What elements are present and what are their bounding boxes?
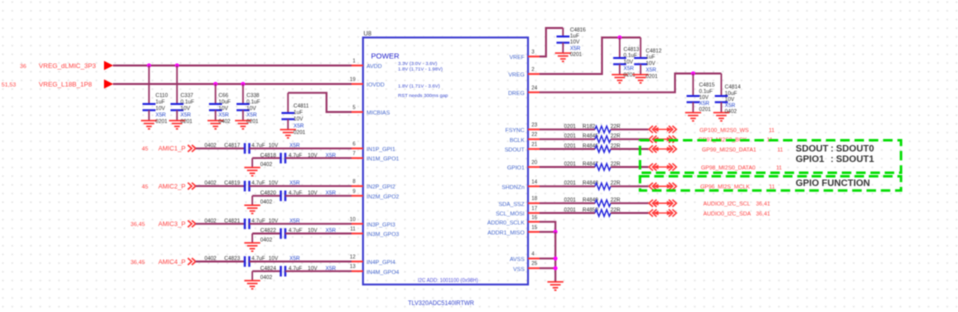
svg-text:C337: C337: [181, 93, 194, 99]
svg-text:AVSS: AVSS: [510, 257, 525, 263]
svg-text:C66: C66: [219, 93, 229, 99]
wire DREG net: [540, 74, 722, 93]
pin 16 ADDR0_SCLK: [487, 215, 539, 227]
node net label GP96_MI2S_MCLK: [700, 185, 775, 191]
svg-text:7: 7: [353, 151, 356, 157]
svg-text:C4812: C4812: [646, 48, 662, 54]
svg-text:0201: 0201: [564, 207, 576, 213]
svg-text:0402: 0402: [260, 200, 272, 206]
svg-text:RST needs 300ms gap: RST needs 300ms gap: [398, 93, 448, 99]
wire C4820 to pin 9: [285, 195, 351, 197]
svg-text:20: 20: [532, 160, 538, 166]
svg-text:10V: 10V: [247, 106, 257, 112]
svg-text:0201: 0201: [564, 134, 576, 140]
wire C4821 to pin 10: [249, 223, 351, 225]
pin 13 IN4M_GPO4: [350, 264, 399, 276]
svg-text:51,53: 51,53: [1, 82, 16, 88]
capacitor C338: [235, 84, 261, 129]
wire R4850 to offpage: [611, 212, 649, 214]
node net label GP99_MI2S0_DATA1: [702, 147, 783, 153]
svg-text:0402: 0402: [205, 181, 217, 187]
svg-text:C4822: C4822: [260, 228, 276, 234]
svg-text:U8: U8: [364, 31, 372, 38]
svg-text:AMIC3_P: AMIC3_P: [158, 221, 185, 228]
svg-text:10V: 10V: [624, 60, 634, 66]
wire ground to C4822: [252, 233, 280, 235]
svg-text:X5R: X5R: [219, 113, 230, 119]
svg-text:36: 36: [20, 64, 26, 70]
wire R4848 to offpage: [611, 185, 649, 187]
node net label GP98_MI2S0_DATA0: [701, 165, 782, 171]
svg-text:AMIC2_P: AMIC2_P: [158, 183, 185, 190]
svg-text:TLV320ADC5140IRTWR: TLV320ADC5140IRTWR: [408, 301, 475, 307]
svg-text:VREG_dLMIC_3P3: VREG_dLMIC_3P3: [39, 63, 97, 70]
svg-text:15: 15: [532, 225, 538, 231]
wire pin to R4845: [540, 138, 596, 140]
node offpage connector GP99_MI2S0_DATA1: [649, 145, 677, 152]
svg-text:10uF: 10uF: [725, 91, 738, 97]
svg-text:IN4P_GPI4: IN4P_GPI4: [367, 260, 396, 266]
resistor R4846 22R: [564, 143, 620, 152]
pin 20 GPIO1: [507, 160, 539, 172]
node AMIC1_P port: [142, 145, 196, 153]
svg-text:X5R: X5R: [156, 113, 167, 119]
svg-text:IN3M_GPO3: IN3M_GPO3: [367, 232, 400, 238]
node net label GP97_MI2S0_BCK: [698, 138, 772, 144]
svg-text:SDOUT0: SDOUT0: [836, 142, 874, 153]
svg-text:36,45: 36,45: [130, 222, 145, 228]
svg-text:VREG_L18B_1P8: VREG_L18B_1P8: [39, 81, 92, 88]
wire pin to R4846: [540, 148, 596, 150]
pin 9 IN2M_GPO2: [352, 189, 400, 201]
capacitor C4815: [685, 74, 715, 121]
capacitor C110: [141, 66, 168, 129]
svg-text:IN1M_GPO1: IN1M_GPO1: [367, 157, 400, 163]
svg-text:1uF: 1uF: [646, 55, 656, 61]
pin 2 VREG: [508, 67, 539, 79]
svg-text:23: 23: [532, 122, 538, 128]
wire R182 to offpage: [611, 128, 649, 130]
svg-text:X5R: X5R: [699, 101, 710, 107]
svg-text:1: 1: [353, 59, 356, 65]
svg-text:C110: C110: [156, 93, 168, 99]
svg-text:C4824: C4824: [260, 266, 276, 272]
svg-text:13: 13: [350, 264, 356, 270]
svg-text:11: 11: [776, 165, 782, 171]
svg-text:10: 10: [350, 217, 356, 223]
svg-text:SDOUT: SDOUT: [505, 148, 525, 154]
svg-text:VSS: VSS: [513, 267, 525, 273]
capacitor C4823: [205, 256, 301, 267]
svg-text:IN2P_GPI2: IN2P_GPI2: [367, 185, 396, 191]
wire IOVDD net: [113, 83, 352, 85]
wire R4847 to offpage: [611, 166, 649, 168]
svg-text:12: 12: [350, 255, 356, 261]
pin 12 IN4P_GPI4: [350, 255, 396, 267]
pin 21 SDOUT: [505, 142, 540, 154]
svg-text:5: 5: [353, 105, 356, 111]
pin 23 FSYNC: [505, 122, 539, 134]
svg-text:10V: 10V: [294, 117, 304, 123]
svg-text:FSYNC: FSYNC: [505, 128, 524, 134]
svg-text:ADDR0_SCLK: ADDR0_SCLK: [487, 220, 525, 226]
svg-text:22: 22: [532, 132, 538, 138]
node offpage connector GP100_MI2S0_WS: [649, 126, 677, 133]
pin 14 SHDNZn: [502, 179, 540, 191]
value TLV320ADC5140IRTWR: [408, 301, 475, 307]
wire pin to R4847: [540, 166, 596, 168]
svg-text:SCL_MOSI: SCL_MOSI: [496, 212, 525, 218]
pin 17 SCL_MOSI: [496, 206, 540, 218]
svg-text:X5R: X5R: [624, 66, 635, 72]
node AMIC2_P port: [142, 183, 196, 191]
node offpage connector AUDIO0_I2C_SCL: [649, 200, 677, 207]
svg-text:4: 4: [532, 252, 535, 258]
svg-text:C4823: C4823: [224, 256, 240, 262]
pin 24 DREG: [508, 85, 539, 97]
svg-text:0201: 0201: [156, 119, 168, 125]
capacitor C4814: [713, 74, 740, 121]
node offpage connector AUDIO0_I2C_SDA: [649, 209, 677, 216]
pin 8 IN2P_GPI2: [352, 179, 396, 191]
svg-text:VREG: VREG: [508, 73, 524, 79]
capacitor C337: [169, 66, 195, 129]
pin 3 VREF: [509, 50, 539, 62]
pin 7 IN1M_GPO1: [352, 151, 400, 163]
svg-text:X5R: X5R: [247, 113, 258, 119]
svg-text:0201: 0201: [564, 161, 576, 167]
svg-text:C4811: C4811: [294, 104, 309, 110]
wire VSS to node: [540, 267, 556, 269]
node AMIC4_P port: [130, 258, 195, 266]
svg-text:10V: 10V: [181, 106, 191, 112]
resistor R182 22R: [564, 124, 620, 133]
svg-text:0402: 0402: [260, 237, 272, 243]
svg-text::: :: [831, 142, 834, 153]
junction C4815 on DREG: [691, 71, 695, 75]
svg-text:0201: 0201: [646, 74, 658, 80]
svg-text:0.1uF: 0.1uF: [699, 89, 713, 95]
svg-text:10V: 10V: [219, 106, 229, 112]
svg-text:10V: 10V: [646, 61, 656, 67]
resistor R4850 22R: [564, 207, 620, 216]
svg-text:36,41: 36,41: [756, 202, 770, 208]
svg-text:18: 18: [532, 196, 538, 202]
svg-text:9: 9: [353, 189, 356, 195]
svg-text:DREG: DREG: [508, 91, 524, 97]
svg-text:X5R: X5R: [181, 113, 192, 119]
node highlight box GPIO FUNCTION: [640, 176, 901, 190]
svg-text:I2C ADD: 1001100 (0x98H): I2C ADD: 1001100 (0x98H): [418, 278, 479, 284]
junction C337 on AVDD: [175, 63, 179, 67]
ground AVSS/VSS: [547, 282, 563, 290]
pin 11 IN3M_GPO3: [350, 227, 399, 239]
wire R4845 to offpage: [611, 138, 649, 140]
svg-text:6: 6: [353, 141, 356, 147]
svg-text:IN2M_GPO2: IN2M_GPO2: [367, 194, 400, 200]
wire VREF net: [540, 28, 564, 57]
svg-text:1.8V (1.71V - 3.6V): 1.8V (1.71V - 3.6V): [398, 84, 440, 90]
svg-text:C4816: C4816: [570, 28, 586, 34]
svg-text:36,45: 36,45: [130, 260, 145, 266]
junction C66 on IOVDD: [213, 82, 217, 86]
svg-text:BCLK: BCLK: [510, 138, 525, 144]
svg-text:1.8V (1.71V - 1.98V): 1.8V (1.71V - 1.98V): [398, 67, 443, 73]
node VREG_dLMIC_3P3 input port: [20, 61, 113, 70]
svg-text:X5R: X5R: [570, 46, 581, 52]
svg-text:IN3P_GPI3: IN3P_GPI3: [367, 222, 396, 228]
svg-text:X5R: X5R: [294, 123, 305, 129]
wire AVSS to node: [540, 258, 556, 260]
svg-text:POWER: POWER: [371, 52, 400, 61]
svg-text:C4815: C4815: [699, 83, 715, 89]
wire node down: [554, 232, 556, 282]
svg-text:11: 11: [350, 227, 355, 233]
wire R4849 to offpage: [611, 202, 649, 204]
junction AVSS: [553, 256, 557, 260]
svg-text:0201: 0201: [564, 143, 576, 149]
pin 6 IN1P_GPI1: [352, 141, 396, 153]
wire C4822 to pin 11: [285, 233, 351, 235]
svg-text:10V: 10V: [156, 106, 166, 112]
svg-text:10V: 10V: [570, 40, 580, 46]
wire AVDD net: [113, 65, 352, 67]
capacitor C4811: [280, 93, 309, 138]
svg-text:0201: 0201: [624, 72, 636, 78]
wire C4824 to pin 13: [285, 270, 351, 272]
node offpage connector GP97_MI2S0_BCK: [649, 136, 677, 143]
svg-text:GPIO1: GPIO1: [507, 166, 524, 172]
svg-text:C4818: C4818: [260, 153, 276, 159]
junction ADDR1_MISO: [553, 230, 557, 234]
svg-text:21: 21: [532, 142, 538, 148]
IC U8 TLV320ADC5140 body: [363, 31, 528, 285]
node offpage connector GP96_MI2S_MCLK: [649, 183, 677, 190]
wire ground to C4824: [252, 270, 280, 272]
capacitor C4819: [205, 181, 301, 192]
resistor R4845 22R: [564, 134, 620, 143]
svg-text:0201: 0201: [564, 181, 576, 187]
svg-text:0402: 0402: [205, 218, 217, 224]
svg-text:GPIO FUNCTION: GPIO FUNCTION: [796, 177, 871, 188]
svg-text:X5R: X5R: [725, 103, 736, 109]
wire MICBIAS net: [288, 93, 352, 112]
svg-text:MICBIAS: MICBIAS: [367, 111, 391, 117]
svg-text:C338: C338: [247, 93, 260, 99]
svg-text:0402: 0402: [219, 119, 231, 125]
capacitor C4821: [205, 218, 301, 229]
wire VREG net: [540, 38, 641, 75]
svg-text:11: 11: [777, 147, 783, 153]
resistor R4847 22R: [564, 161, 620, 170]
svg-text:AVDD: AVDD: [367, 64, 382, 70]
pin 5 MICBIAS: [352, 105, 391, 117]
ground for C4822: [244, 234, 260, 252]
wire R4846 to offpage: [611, 148, 649, 150]
ground for C4820: [244, 196, 260, 214]
pin 10 IN3P_GPI3: [350, 217, 396, 229]
svg-text:0402: 0402: [205, 143, 217, 149]
wire C4819 to pin 8: [249, 185, 351, 187]
svg-text:11: 11: [769, 128, 775, 134]
svg-text:C4814: C4814: [725, 85, 741, 91]
node highlight box SDOUT/GPIO1: [640, 140, 901, 173]
capacitor C4817: [205, 143, 301, 154]
svg-text:AUDIO0_I2C_SDA: AUDIO0_I2C_SDA: [703, 211, 751, 217]
node net label AUDIO0_I2C_SCL: [703, 202, 770, 208]
pin 22 BCLK: [510, 132, 540, 144]
svg-text:IOVDD: IOVDD: [367, 83, 385, 89]
node AMIC3_P port: [130, 220, 195, 228]
ground for C4818: [244, 158, 260, 176]
capacitor C4812: [633, 38, 662, 83]
node VREG_L18B_1P8 input port: [1, 79, 113, 88]
node text GPIO FUNCTION: [796, 177, 871, 188]
svg-text:14: 14: [532, 179, 538, 185]
svg-text:0201: 0201: [564, 198, 576, 204]
svg-text:10uF: 10uF: [219, 99, 232, 105]
svg-text:25: 25: [532, 261, 538, 267]
pin 4 AVSS: [510, 252, 540, 264]
svg-text:45: 45: [142, 147, 148, 153]
chip note I2C address: [418, 278, 479, 284]
node net label GP100_MI2S0_WS: [700, 128, 775, 134]
svg-text:GP99_MI2S0_DATA1: GP99_MI2S0_DATA1: [702, 147, 756, 153]
svg-text:0201: 0201: [294, 130, 306, 136]
resistor R4849 22R: [564, 198, 620, 207]
svg-text:45: 45: [142, 184, 148, 190]
capacitor C4820: [260, 191, 336, 206]
pin 19 IOVDD: [350, 77, 385, 89]
svg-text:C4817: C4817: [224, 143, 240, 149]
capacitor C4824: [260, 266, 336, 281]
svg-text:IN4M_GPO4: IN4M_GPO4: [367, 270, 400, 276]
svg-text:SDA_SSZ: SDA_SSZ: [499, 202, 525, 208]
svg-text:0.1uF: 0.1uF: [247, 99, 261, 105]
junction VSS: [553, 266, 557, 270]
svg-text:0201: 0201: [247, 119, 259, 125]
junction C4813 on VREG: [618, 35, 622, 39]
svg-text:GP100_MI2S0_WS: GP100_MI2S0_WS: [700, 128, 749, 134]
wire AMIC1_P to C4817: [196, 147, 245, 149]
node offpage connector GP98_MI2S0_DATA0: [649, 163, 677, 170]
svg-text:0402: 0402: [260, 275, 272, 281]
svg-text:SDOUT: SDOUT: [796, 142, 829, 153]
svg-text:3.3V (3.0V - 3.6V): 3.3V (3.0V - 3.6V): [398, 61, 438, 67]
svg-text:AMIC4_P: AMIC4_P: [158, 259, 185, 266]
node text SDOUT mapping: [796, 142, 874, 153]
svg-text:C4813: C4813: [624, 47, 640, 53]
node net label AUDIO0_I2C_SDA: [703, 211, 770, 217]
svg-text:AMIC1_P: AMIC1_P: [158, 146, 185, 153]
svg-text:R182: R182: [583, 124, 596, 130]
wire AMIC2_P to C4819: [196, 185, 245, 187]
svg-text:0402: 0402: [260, 162, 272, 168]
svg-text:0201: 0201: [570, 52, 582, 58]
wire pin to R4848: [540, 185, 596, 187]
svg-text:0201: 0201: [699, 107, 711, 113]
svg-text:SDOUT1: SDOUT1: [836, 153, 874, 164]
wire C4818 to pin 7: [285, 157, 351, 159]
svg-text:36,41: 36,41: [756, 211, 770, 217]
svg-text:1uF: 1uF: [294, 110, 304, 116]
pin 1 AVDD: [352, 59, 382, 71]
node text GPIO1 mapping: [796, 153, 874, 164]
svg-text:0.1uF: 0.1uF: [181, 99, 195, 105]
wire pin to R182: [540, 128, 596, 130]
wire AMIC4_P to C4823: [196, 261, 245, 263]
resistor R4848 22R: [564, 181, 620, 190]
wire AMIC3_P to C4821: [196, 223, 245, 225]
wire ADDR1_MISO to node: [540, 231, 556, 233]
capacitor C4818: [260, 153, 336, 168]
svg-text:2: 2: [532, 67, 535, 73]
capacitor C4822: [260, 228, 336, 243]
svg-text:0402: 0402: [205, 256, 217, 262]
svg-text:0201: 0201: [564, 124, 576, 130]
svg-text:19: 19: [350, 77, 356, 83]
wire ground to C4818: [252, 157, 280, 159]
wire C4817 to pin 6: [249, 147, 351, 149]
svg-text:C4820: C4820: [260, 191, 276, 197]
svg-text:24: 24: [532, 85, 538, 91]
junction C338 on IOVDD: [241, 82, 245, 86]
pin 18 SDA_SSZ: [499, 196, 540, 208]
pin 15 ADDR1_MISO: [488, 225, 540, 237]
wire pin to R4850: [540, 212, 596, 214]
svg-text:GP98_MI2S0_DATA0: GP98_MI2S0_DATA0: [701, 165, 755, 171]
svg-text:8: 8: [353, 179, 356, 185]
svg-text:VREF: VREF: [509, 55, 525, 61]
svg-text:1uF: 1uF: [156, 99, 166, 105]
wire ADDR0_SCLK to node: [540, 222, 556, 232]
svg-text:17: 17: [532, 206, 538, 212]
chip title POWER: [371, 52, 400, 61]
capacitor C4816: [555, 28, 586, 62]
svg-text:AUDIO0_I2C_SCL: AUDIO0_I2C_SCL: [703, 202, 750, 208]
svg-text:3: 3: [532, 50, 535, 56]
svg-text::: :: [831, 153, 834, 164]
wire C4823 to pin 12: [249, 261, 351, 263]
svg-text:0201: 0201: [181, 119, 193, 125]
junction C110 on AVDD: [147, 63, 151, 67]
svg-text:C4821: C4821: [224, 218, 240, 224]
svg-text:X5R: X5R: [646, 68, 657, 74]
svg-text:10V: 10V: [725, 97, 735, 103]
svg-text:ADDR1_MISO: ADDR1_MISO: [488, 231, 526, 237]
pin 25 VSS: [513, 261, 539, 273]
svg-text:10V: 10V: [699, 95, 709, 101]
svg-text:C4819: C4819: [224, 181, 240, 187]
ground for C4824: [244, 271, 260, 289]
svg-text:16: 16: [532, 215, 538, 221]
annotation supply voltages: [398, 61, 448, 99]
svg-text:0402: 0402: [725, 109, 737, 115]
svg-text:GPIO1: GPIO1: [796, 153, 825, 164]
capacitor C4813: [612, 38, 640, 83]
wire pin to R4849: [540, 202, 596, 204]
svg-text:IN1P_GPI1: IN1P_GPI1: [367, 147, 396, 153]
wire ground to C4820: [252, 195, 280, 197]
svg-text:1uF: 1uF: [570, 34, 580, 40]
capacitor C66: [208, 84, 232, 129]
svg-text:SHDNZn: SHDNZn: [502, 185, 525, 191]
